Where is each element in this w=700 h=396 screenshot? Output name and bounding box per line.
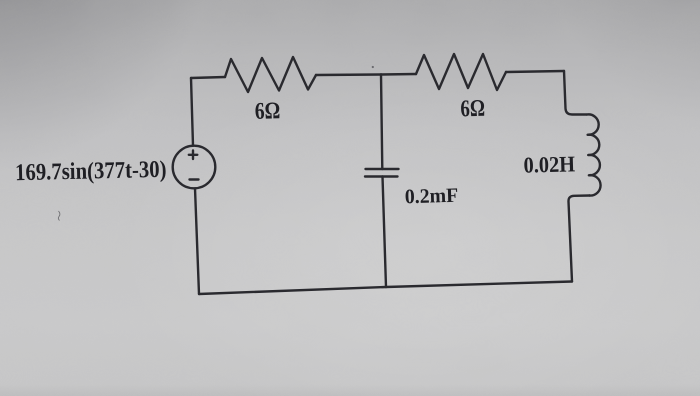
svg-text:6Ω: 6Ω [254, 98, 280, 125]
voltage source VS 169.7sin(377t-30) [173, 146, 216, 189]
tiny speck above node T [372, 66, 374, 68]
resistor R2 [416, 54, 506, 90]
svg-text:169.7sin(377t-30): 169.7sin(377t-30) [15, 157, 167, 186]
svg-text:6Ω: 6Ω [460, 96, 485, 123]
stray hair mark on paper [58, 211, 60, 221]
svg-text:0.02H: 0.02H [523, 151, 576, 177]
wire top-middle (R1 to node T) [316, 73, 381, 76]
wire left upper (source to node A) [191, 78, 193, 146]
svg-text:0.2mF: 0.2mF [404, 185, 458, 208]
source plus terminal [189, 151, 198, 160]
wire top-right (R2 to node B) [506, 71, 564, 72]
source minus terminal [190, 178, 199, 180]
wire right descending to inductor [564, 71, 587, 115]
wire bottom (node M to node D) [199, 287, 386, 294]
wire left lower (node D to source) [195, 189, 199, 295]
wire inductor bottom to node C [568, 196, 589, 282]
wire bottom (node C to node M) [386, 282, 572, 288]
capacitor C1 [365, 169, 399, 177]
inductor L1 [587, 114, 601, 195]
wire top-left horizontal (node A to R1) [191, 77, 225, 78]
wire middle branch upper (node T to capacitor) [381, 75, 382, 170]
node T junction [381, 73, 416, 76]
wire middle branch lower (capacitor to node M) [383, 177, 387, 288]
resistor R1 [225, 57, 316, 92]
